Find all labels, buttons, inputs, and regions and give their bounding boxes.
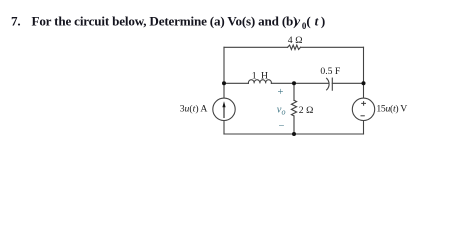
resistor R1 4ohm zigzag — [288, 45, 301, 49]
svg-text:4 Ω: 4 Ω — [288, 35, 303, 46]
wire bottom side — [224, 133, 364, 135]
svg-text:0.5 F: 0.5 F — [320, 66, 341, 77]
voltage source V1 minus sign — [361, 115, 365, 117]
wire left side — [223, 47, 225, 134]
capacitor C1 0.5F left curved plate — [327, 78, 329, 90]
voltage source V1 circle — [352, 98, 374, 120]
svg-text:2 Ω: 2 Ω — [299, 105, 314, 116]
svg-text:1 H: 1 H — [252, 70, 269, 81]
svg-text:3u(t) A: 3u(t) A — [180, 103, 208, 114]
node junction dot left (node A) — [222, 81, 226, 85]
wire top side — [224, 46, 364, 48]
voltage source V1 plus sign — [361, 101, 366, 106]
current source I1 arrow up — [223, 105, 225, 118]
title problem statement — [11, 14, 325, 31]
current source I1 circle — [213, 98, 235, 120]
svg-text:7.: 7. — [11, 14, 20, 29]
node junction dot bottom (node D) — [292, 132, 296, 136]
capacitor C1 0.5F right straight plate — [331, 78, 333, 90]
node junction dot middle top (node B) — [292, 81, 296, 85]
svg-text:15u(t) V: 15u(t) V — [376, 104, 407, 115]
inductor L1 1H coil — [248, 80, 271, 84]
wire middle horizontal (node A to node B) — [224, 82, 364, 84]
svg-text:−: − — [279, 121, 285, 132]
svg-text:+: + — [278, 87, 284, 98]
node junction dot right (node C) — [362, 81, 366, 85]
wire middle branch (2 ohm) — [293, 83, 295, 134]
svg-text:For the circuit below, Determi: For the circuit below, Determine (a) Vo(… — [32, 14, 298, 29]
wire right side — [363, 47, 365, 134]
svg-text:v0(t): v0(t) — [294, 14, 325, 31]
resistor R2 2ohm vertical zigzag — [291, 100, 296, 116]
